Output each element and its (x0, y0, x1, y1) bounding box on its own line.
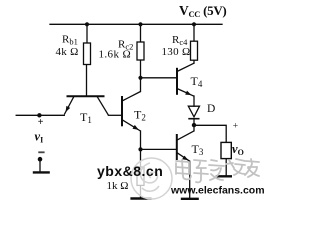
wire Rc2 bottom lead to node B (140, 60, 142, 92)
wire T3 collector up to output node (193, 125, 195, 131)
wire input source lower lead (39, 159, 41, 172)
resistor Rb1 (84, 43, 91, 65)
svg-text:1k Ω: 1k Ω (107, 180, 129, 192)
svg-text:VCC (5V): VCC (5V) (179, 3, 226, 19)
wire T3 emitter to ground (189, 161, 191, 199)
transistor Q T2 (122, 92, 141, 132)
svg-text:1.6k Ω: 1.6k Ω (99, 49, 132, 61)
junction node source minus terminal (38, 157, 43, 162)
junction node output (192, 123, 196, 127)
wire Rc4 bottom lead (193, 60, 195, 63)
wire node B to T4 base (141, 77, 178, 79)
svg-text:D: D (207, 103, 215, 115)
ground input source (33, 171, 50, 173)
wire Vcc rail (50, 23, 222, 25)
label minus input (38, 151, 44, 153)
junction node on rail at Rc4 (192, 22, 196, 26)
wire Rb1 bottom lead to T1 base (86, 65, 88, 97)
svg-text:130 Ω: 130 Ω (162, 46, 191, 58)
wire Rc4 top lead (193, 24, 195, 41)
ground T3 emitter (181, 198, 199, 200)
junction node on rail at Rb1 (85, 22, 89, 26)
svg-text:ybx&8.cn: ybx&8.cn (97, 163, 163, 179)
svg-text:T3: T3 (192, 142, 204, 157)
junction node input terminal (37, 113, 41, 117)
wire diode to output node (193, 119, 195, 126)
wire T2 emitter down (140, 131, 142, 167)
transistor Q T3 (177, 131, 194, 161)
svg-text:T1: T1 (80, 110, 92, 125)
svg-text:vO: vO (232, 142, 244, 157)
svg-text:4k Ω: 4k Ω (56, 46, 79, 58)
ground 1k resistor (130, 197, 151, 199)
resistor load RL (221, 142, 231, 158)
wire Rb1 top lead (86, 24, 88, 43)
svg-text:T2: T2 (134, 108, 146, 123)
wire Rc2 top lead (140, 24, 142, 42)
junction node B Rc2/T4 base (138, 76, 142, 80)
svg-text:www.elecfans.com: www.elecfans.com (170, 185, 265, 197)
wire 1k resistor to ground (140, 185, 142, 198)
wire output node to load (194, 125, 226, 142)
svg-text:vI: vI (35, 130, 44, 145)
wire T1 collector to T2 base (109, 114, 123, 116)
transistor Q T4 (177, 63, 194, 96)
resistor Rc4 (191, 41, 198, 60)
transistor Q T1 (64, 96, 108, 115)
wire T4 emitter to diode (193, 96, 195, 106)
svg-text:T4: T4 (191, 74, 203, 89)
wire input (16, 114, 64, 116)
svg-text:+: + (38, 117, 44, 128)
junction node T2 emitter / T3 base (138, 147, 142, 151)
watermark chinese chars (176, 159, 259, 182)
resistor RE2 1k (137, 167, 144, 185)
junction node on rail at Rc2 (138, 22, 142, 26)
resistor Rc2 (137, 42, 144, 60)
svg-text:Rb1: Rb1 (62, 34, 78, 47)
svg-text:+: + (233, 122, 238, 132)
watermark logo circle (131, 158, 172, 199)
ground load (216, 175, 232, 177)
diode D (188, 106, 199, 119)
wire load to ground (225, 159, 227, 177)
wire T2 emitter node to T3 base (141, 148, 176, 150)
